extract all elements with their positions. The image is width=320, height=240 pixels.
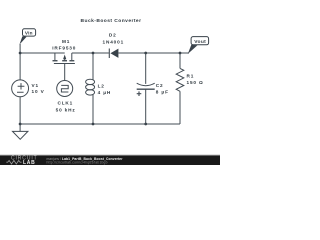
svg-text:Buck-Boost Converter: Buck-Boost Converter [81, 18, 142, 24]
svg-text:1N4001: 1N4001 [103, 40, 125, 45]
footer logo zigzag [6, 160, 21, 164]
svg-text:Vout: Vout [194, 39, 206, 45]
node at C2 top [144, 52, 147, 55]
node Vout flag [188, 37, 209, 54]
wire ground stub [19, 124, 21, 131]
clock source CLK1 [57, 81, 73, 97]
transistor M1 (P-MOSFET) [53, 53, 75, 64]
svg-text:R1: R1 [187, 73, 195, 78]
wire left rail lower [19, 97, 21, 124]
svg-text:50 kHz: 50 kHz [56, 107, 76, 112]
voltage source V1 [12, 80, 29, 97]
wire C2 bottom lead [145, 89, 147, 124]
svg-text:150 Ω: 150 Ω [187, 80, 204, 85]
svg-text:LAB: LAB [23, 160, 35, 165]
svg-text:http://circuitlab.com/c/4hq65/: http://circuitlab.com/c/4hq65/lab1bgb [47, 160, 108, 164]
wire left rail upper [19, 44, 21, 80]
svg-text:CLK1: CLK1 [57, 100, 73, 105]
svg-text:Vin: Vin [25, 30, 33, 35]
wire C2 top lead [145, 53, 147, 84]
node at ground [19, 123, 22, 126]
inductor L2 [86, 79, 95, 95]
svg-text:D2: D2 [109, 33, 117, 38]
ground [13, 131, 28, 139]
wire top mid segment [72, 52, 109, 54]
wire R1 bottom lead [179, 91, 181, 124]
junction dots [19, 52, 182, 126]
wire top left segment [20, 52, 65, 54]
node at R1 top [179, 52, 182, 55]
node at L2 top [92, 52, 95, 55]
wire top right segment [118, 52, 189, 54]
svg-text:IRF9530: IRF9530 [52, 45, 76, 50]
wire L2 top lead [92, 53, 94, 80]
node Vin flag [19, 29, 35, 45]
svg-text:M1: M1 [62, 39, 70, 44]
footer bar [0, 155, 220, 165]
node at L2 bottom [92, 123, 95, 126]
svg-text:V1: V1 [32, 83, 39, 88]
node at Vin rail / top wire [19, 52, 22, 55]
wire gate lead M1 to CLK1 [64, 64, 66, 81]
resistor R1 [176, 68, 184, 91]
diode D2 [109, 49, 118, 59]
svg-text:8 μF: 8 μF [156, 89, 169, 94]
wire R1 top lead [179, 53, 181, 68]
svg-text:C2: C2 [156, 83, 164, 88]
wire L2 bottom lead [92, 95, 94, 124]
node at C2 bottom [144, 123, 147, 126]
svg-text:L2: L2 [98, 83, 105, 88]
svg-text:10 V: 10 V [32, 89, 45, 94]
capacitor C2 (polarized) [137, 83, 155, 96]
svg-text:4 μH: 4 μH [98, 90, 112, 95]
wire bottom rail [20, 123, 180, 125]
